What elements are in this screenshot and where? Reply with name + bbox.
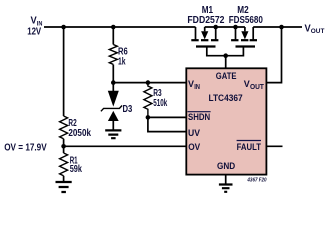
svg-text:GATE: GATE: [216, 71, 237, 82]
svg-text:2050k: 2050k: [68, 128, 91, 139]
wire gate to GATE pin: [225, 56, 227, 69]
ground under R1: [56, 182, 72, 192]
svg-text:SHDN: SHDN: [188, 112, 210, 123]
wire output rail: [253, 26, 302, 28]
node VOUT junction: [279, 25, 284, 30]
wire R1 to ground: [63, 176, 65, 182]
wire mid rail: [205, 26, 245, 28]
wire R3 to UV pin: [148, 117, 186, 131]
node R6 bottom junction: [111, 80, 116, 85]
transistor M2: [235, 27, 237, 39]
node R3 top junction: [146, 80, 151, 85]
svg-text:OV = 17.9V: OV = 17.9V: [4, 142, 47, 153]
resistor R1: [60, 153, 68, 176]
wire left branch down to R2: [63, 27, 65, 116]
wire FAULT stub: [266, 145, 282, 147]
svg-text:4367 F20: 4367 F20: [246, 177, 266, 183]
node M1 drain junction: [213, 25, 218, 30]
svg-text:OV: OV: [188, 142, 201, 153]
svg-text:12V: 12V: [27, 27, 41, 38]
svg-text:1k: 1k: [118, 56, 126, 67]
svg-text:UV: UV: [188, 128, 201, 139]
wire VIN sense to VIN pin: [113, 82, 186, 84]
zener D3: [112, 83, 114, 92]
svg-text:OUT: OUT: [250, 84, 265, 91]
svg-text:OUT: OUT: [311, 28, 325, 35]
node junction R6 branch: [111, 25, 116, 30]
node M2 source junction: [233, 25, 238, 30]
wire VOUT to VOUT pin: [266, 27, 281, 83]
resistor R3: [144, 83, 152, 118]
svg-text:GND: GND: [217, 161, 235, 172]
svg-text:FDS5680: FDS5680: [229, 15, 263, 26]
node junction left divider branch: [61, 25, 66, 30]
resistor R6: [112, 27, 114, 45]
wire gate M2: [226, 47, 244, 56]
svg-text:IN: IN: [194, 84, 200, 91]
wire R2 to R1: [63, 139, 65, 153]
svg-text:59k: 59k: [70, 164, 83, 175]
IC LTC4367: [186, 68, 266, 174]
svg-text:D3: D3: [123, 104, 133, 115]
svg-text:LTC4367: LTC4367: [209, 93, 243, 104]
wire GND pin to ground: [225, 175, 227, 185]
node R3 bottom junction: [146, 115, 151, 120]
transistor M1: [195, 27, 197, 39]
node OV divider junction: [61, 144, 66, 149]
wire gate M1: [207, 47, 226, 56]
wire OV net to OV pin: [64, 145, 187, 147]
svg-text:FDD2572: FDD2572: [187, 15, 224, 26]
svg-text:FAULT: FAULT: [237, 142, 262, 153]
wire R3 to SHDN pin: [148, 116, 186, 118]
ground under GND pin: [219, 185, 233, 192]
node gate junction: [223, 53, 228, 58]
wire top rail VIN to M1: [44, 26, 196, 28]
resistor R2: [60, 116, 68, 139]
svg-text:510k: 510k: [153, 98, 167, 109]
ground under D3: [105, 130, 121, 138]
